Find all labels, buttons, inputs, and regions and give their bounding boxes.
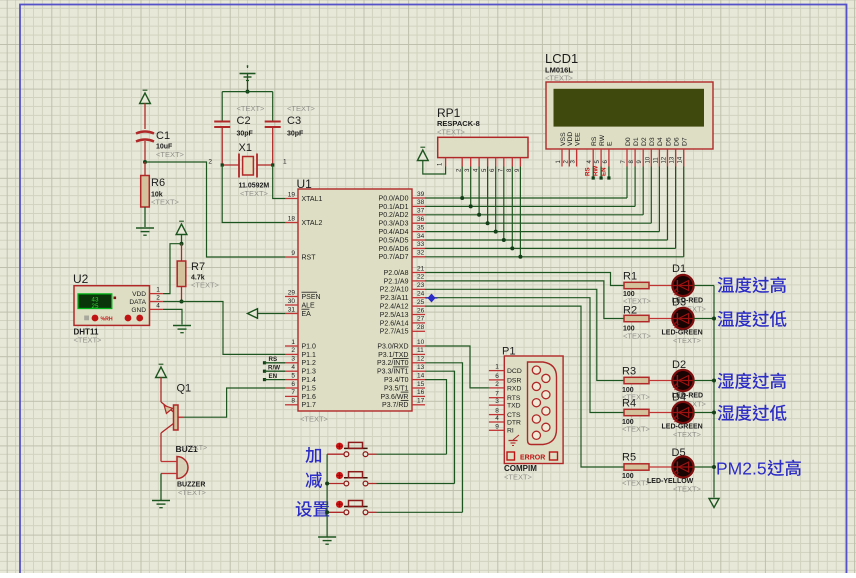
svg-text:7: 7	[291, 389, 295, 396]
U1 right pins	[377, 191, 425, 409]
svg-text:11: 11	[417, 347, 424, 354]
power VCC arrow above R7	[176, 221, 187, 244]
ground above crystal	[240, 65, 256, 92]
ground below buzzer	[152, 500, 170, 502]
svg-text:P2.1/A9: P2.1/A9	[384, 278, 409, 285]
svg-text:ALE: ALE	[302, 302, 316, 309]
svg-text:C1: C1	[156, 130, 170, 142]
svg-text:3: 3	[291, 356, 295, 363]
svg-text:25: 25	[417, 299, 425, 306]
svg-text:<TEXT>: <TEXT>	[673, 430, 702, 439]
ground below R6	[136, 227, 154, 229]
svg-text:13: 13	[670, 156, 676, 163]
svg-text:30: 30	[288, 298, 296, 305]
svg-text:P3.5/T1: P3.5/T1	[384, 385, 409, 392]
svg-text:P3.0/RXD: P3.0/RXD	[377, 343, 408, 350]
U1 left pins	[285, 191, 322, 409]
node C1-R6 junction	[143, 160, 147, 164]
svg-text:32: 32	[417, 250, 425, 257]
svg-text:EA: EA	[302, 311, 312, 318]
svg-text:U2: U2	[73, 272, 89, 286]
svg-text:36: 36	[417, 216, 425, 223]
svg-text:P1.7: P1.7	[302, 402, 317, 409]
svg-text:RW: RW	[593, 166, 600, 176]
resistor R6	[141, 162, 180, 227]
svg-text:33: 33	[417, 241, 425, 248]
svg-text:VSS: VSS	[560, 132, 567, 146]
button 设置 (set)	[327, 501, 462, 515]
svg-text:Q1: Q1	[177, 383, 192, 395]
buzzer BUZ1	[161, 444, 207, 500]
svg-text:P2.0/A8: P2.0/A8	[384, 270, 409, 277]
svg-text:RS: RS	[591, 136, 598, 146]
svg-text:PM2.5: PM2.5	[716, 459, 767, 479]
label 加	[305, 447, 321, 463]
LCD control terminals RS RW EN	[585, 166, 611, 180]
svg-text:<TEXT>: <TEXT>	[240, 189, 269, 198]
svg-text:PSEN: PSEN	[302, 294, 321, 301]
node X1 pin2	[221, 163, 224, 166]
power arrow at EA	[248, 309, 286, 319]
net label RW at P1.3	[263, 365, 285, 373]
svg-text:25: 25	[91, 303, 99, 310]
svg-text:R3: R3	[622, 366, 636, 378]
svg-text:23: 23	[417, 282, 425, 289]
svg-text:RP1: RP1	[437, 106, 461, 120]
LED row 4 resistor R4	[622, 398, 672, 434]
svg-text:EN: EN	[600, 167, 607, 176]
svg-text:<TEXT>: <TEXT>	[178, 488, 207, 497]
svg-text:P1.2: P1.2	[302, 360, 317, 367]
svg-text:CTS: CTS	[507, 412, 521, 419]
wire VDD net	[163, 244, 182, 294]
junction dots P0/RP1	[460, 196, 522, 259]
svg-text:P0.1/AD1: P0.1/AD1	[379, 204, 409, 211]
power VCC arrow above Q1	[156, 364, 167, 402]
svg-text:13: 13	[417, 364, 425, 371]
svg-text:RXD: RXD	[507, 385, 521, 392]
svg-text:<TEXT>: <TEXT>	[156, 150, 185, 159]
svg-text:P1.1: P1.1	[302, 352, 317, 359]
svg-text:<TEXT>: <TEXT>	[437, 128, 466, 137]
wire cap top rail	[222, 91, 273, 93]
svg-text:8: 8	[291, 398, 295, 405]
transistor Q1	[161, 383, 191, 462]
svg-text:<TEXT>: <TEXT>	[623, 332, 652, 341]
svg-text:7: 7	[495, 391, 499, 398]
svg-text:P3.3/INT1: P3.3/INT1	[377, 369, 409, 376]
svg-text:RS: RS	[585, 167, 592, 176]
svg-text:22: 22	[417, 274, 425, 281]
button 加 (increase)	[327, 442, 446, 456]
svg-text:D0: D0	[625, 137, 632, 146]
svg-text:D1: D1	[672, 263, 686, 275]
svg-text:8: 8	[495, 408, 499, 415]
svg-text:GND: GND	[131, 307, 146, 314]
button 减 (decrease)	[327, 472, 454, 486]
svg-text:R4: R4	[622, 398, 636, 410]
wire button3 to P3.2	[425, 363, 463, 513]
wire RST net	[145, 162, 285, 257]
svg-text:2: 2	[495, 381, 499, 388]
wire D1 to rail	[694, 285, 714, 287]
svg-text:<TEXT>: <TEXT>	[181, 445, 207, 452]
wire XTAL2 net	[222, 165, 285, 223]
LED row 1 resistor R1	[623, 271, 672, 306]
svg-text:6: 6	[291, 381, 295, 388]
svg-text:P2.3/A11: P2.3/A11	[380, 295, 408, 302]
svg-text:<TEXT>: <TEXT>	[191, 281, 220, 290]
svg-text:D4: D4	[657, 137, 664, 146]
node X1 pin1	[271, 163, 274, 166]
svg-text:RS: RS	[269, 356, 278, 363]
svg-text:P1.4: P1.4	[302, 377, 317, 384]
svg-text:<TEXT>: <TEXT>	[300, 415, 329, 424]
svg-text:9: 9	[495, 423, 499, 430]
wire button common rail	[326, 454, 328, 536]
svg-text:VDD: VDD	[567, 132, 574, 146]
svg-text:38: 38	[417, 199, 425, 206]
crystal X1	[208, 142, 287, 198]
resistor R7	[177, 244, 219, 302]
capacitor C2	[214, 104, 265, 165]
svg-text:39: 39	[417, 191, 425, 198]
svg-text:%RH: %RH	[101, 316, 113, 322]
wire button1 to P3.4	[425, 380, 447, 455]
LED row 3 resistor R3	[622, 366, 672, 402]
svg-text:<TEXT>: <TEXT>	[504, 473, 533, 482]
svg-text:C3: C3	[287, 115, 301, 127]
svg-text:D1: D1	[633, 137, 640, 146]
label 湿度过低	[718, 405, 734, 421]
svg-text:17: 17	[417, 398, 425, 405]
svg-text:P3.4/T0: P3.4/T0	[384, 377, 409, 384]
LED D4	[662, 402, 703, 439]
svg-text:P1.3: P1.3	[302, 369, 317, 376]
svg-text:P2.6/A14: P2.6/A14	[380, 320, 409, 327]
svg-text:DATA: DATA	[129, 299, 146, 306]
svg-text:1: 1	[156, 287, 160, 294]
wire GND of U2	[163, 309, 182, 324]
svg-text:TXD: TXD	[507, 403, 521, 410]
svg-text:14: 14	[678, 156, 684, 163]
svg-text:DTR: DTR	[507, 419, 521, 426]
wire P2.0-P2.4 to LED resistors	[425, 273, 624, 468]
svg-text:XTAL1: XTAL1	[302, 196, 323, 203]
svg-text:P0.7/AD7: P0.7/AD7	[379, 254, 409, 261]
svg-text:4: 4	[156, 302, 160, 309]
svg-text:RW: RW	[599, 134, 606, 146]
svg-text:11: 11	[653, 157, 659, 164]
svg-text:16: 16	[417, 389, 425, 396]
wire button2 to P3.3	[425, 371, 455, 483]
P1 pins	[489, 364, 522, 435]
svg-text:18: 18	[288, 215, 296, 222]
node cap top junction	[246, 90, 250, 94]
svg-text:P0.2/AD2: P0.2/AD2	[379, 212, 409, 219]
svg-text:3: 3	[495, 398, 499, 405]
net label EN at P1.4	[263, 373, 285, 381]
svg-text:P3.7/RD: P3.7/RD	[382, 402, 408, 409]
power VCC arrow at RP1 pin1	[417, 147, 445, 174]
svg-text:C2: C2	[237, 115, 251, 127]
svg-text:P3.6/WR: P3.6/WR	[380, 394, 408, 401]
svg-text:R5: R5	[622, 452, 636, 464]
microcontroller U1	[297, 177, 413, 424]
net label RS at P1.2	[263, 356, 285, 364]
svg-text:27: 27	[417, 316, 425, 323]
serial port P1 COMPIM	[502, 346, 563, 482]
capacitor C1	[136, 130, 185, 160]
svg-text:EN: EN	[269, 373, 278, 380]
svg-text:D3: D3	[649, 137, 656, 146]
svg-text:1: 1	[291, 339, 295, 346]
svg-text:1: 1	[495, 364, 499, 371]
label 温度过高	[718, 277, 734, 293]
resistor pack RP1	[437, 106, 528, 158]
wire P3.0 RXD to COMPIM	[425, 346, 489, 388]
wire D4 to rail	[694, 412, 714, 414]
wire P0 data bus to RP1 and LCD	[425, 167, 684, 257]
wire DATA net	[163, 302, 285, 355]
label 湿度过高	[718, 373, 734, 389]
svg-text:34: 34	[417, 233, 425, 240]
svg-text:28: 28	[417, 324, 425, 331]
svg-text:E: E	[607, 141, 614, 146]
svg-text:P0.5/AD5: P0.5/AD5	[379, 237, 409, 244]
svg-text:P3.1/TXD: P3.1/TXD	[378, 352, 408, 359]
svg-text:<TEXT>: <TEXT>	[74, 336, 103, 345]
wire LED cathode rail	[713, 286, 715, 498]
svg-text:P2.4/A12: P2.4/A12	[380, 304, 409, 311]
svg-text:35: 35	[417, 224, 425, 231]
svg-text:P1.6: P1.6	[302, 394, 317, 401]
svg-text:D5: D5	[665, 137, 672, 146]
svg-text:9: 9	[291, 250, 295, 257]
svg-text:19: 19	[288, 191, 296, 198]
svg-text:RI: RI	[507, 428, 514, 435]
svg-text:P1.5: P1.5	[302, 385, 317, 392]
junction dots LED rail	[712, 317, 716, 470]
svg-text:6: 6	[495, 373, 499, 380]
svg-text:D6: D6	[673, 137, 680, 146]
svg-text:RST: RST	[302, 254, 317, 261]
svg-text:ERROR: ERROR	[520, 455, 545, 462]
svg-text:12: 12	[417, 356, 425, 363]
svg-text:10: 10	[417, 339, 425, 346]
svg-text:P0.0/AD0: P0.0/AD0	[379, 195, 409, 202]
svg-text:P0.4/AD4: P0.4/AD4	[379, 229, 409, 236]
junction dots button rail	[325, 482, 329, 515]
LED D2	[672, 359, 707, 409]
svg-text:4: 4	[291, 364, 295, 371]
svg-text:29: 29	[288, 289, 296, 296]
node DATA junction	[180, 300, 184, 304]
svg-text:VDD: VDD	[132, 291, 146, 298]
svg-text:21: 21	[417, 265, 425, 272]
node R7 top junction	[180, 242, 184, 246]
svg-text:P3.2/INT0: P3.2/INT0	[377, 360, 409, 367]
svg-text:<TEXT>: <TEXT>	[237, 104, 266, 113]
svg-text:37: 37	[417, 208, 425, 215]
LED D5	[647, 447, 702, 494]
label 设置	[296, 501, 312, 517]
svg-text:14: 14	[417, 372, 425, 379]
ground below buttons	[318, 536, 336, 538]
LED D3	[662, 308, 703, 345]
svg-text:2: 2	[208, 159, 212, 166]
svg-text:P2.7/A15: P2.7/A15	[380, 329, 409, 336]
svg-text:31: 31	[288, 306, 296, 313]
svg-text:D7: D7	[682, 137, 689, 146]
svg-text:<TEXT>: <TEXT>	[151, 198, 180, 207]
LED D1	[672, 263, 707, 314]
sensor U2 DHT11	[73, 272, 163, 345]
power VCC arrow above C1	[140, 90, 151, 129]
LCD pin names and stubs	[556, 132, 689, 167]
svg-text:R/W: R/W	[268, 365, 280, 372]
svg-text:P2.2/A10: P2.2/A10	[380, 287, 409, 294]
svg-text:RTS: RTS	[507, 395, 521, 402]
svg-text:P1.0: P1.0	[302, 343, 317, 350]
label 减	[306, 472, 323, 488]
label 温度过低	[718, 311, 734, 327]
svg-text:10: 10	[645, 156, 651, 163]
svg-text:<TEXT>: <TEXT>	[673, 485, 702, 494]
capacitor C3	[265, 104, 316, 165]
svg-text:<TEXT>: <TEXT>	[287, 104, 316, 113]
ground below U2 GND	[173, 325, 191, 327]
svg-text:R1: R1	[623, 271, 637, 283]
svg-text:R6: R6	[151, 177, 165, 189]
svg-text:15: 15	[417, 381, 425, 388]
cursor crosshair	[426, 294, 438, 303]
svg-text:<TEXT>: <TEXT>	[673, 336, 702, 345]
svg-text:4: 4	[495, 415, 499, 422]
svg-text:XTAL2: XTAL2	[302, 220, 323, 227]
svg-text:24: 24	[417, 291, 425, 298]
svg-text:26: 26	[417, 307, 425, 314]
svg-text:12: 12	[662, 156, 668, 163]
svg-text:DSR: DSR	[507, 377, 521, 384]
LED row 5 resistor R5	[622, 452, 672, 488]
wire Q1 base to P1.5	[183, 388, 285, 417]
power down arrow LED rail	[709, 499, 719, 508]
svg-text:30pF: 30pF	[287, 131, 304, 138]
RP1 pins 2-9	[457, 158, 521, 172]
svg-text:1: 1	[283, 159, 287, 166]
LED row 2 resistor R2	[623, 305, 672, 341]
svg-text:R7: R7	[191, 261, 205, 273]
svg-text:D2: D2	[641, 137, 648, 146]
svg-text:30pF: 30pF	[237, 131, 254, 138]
svg-text:2: 2	[156, 294, 160, 301]
svg-text:2: 2	[291, 347, 295, 354]
svg-text:DCD: DCD	[507, 368, 522, 375]
svg-text:P2.5/A13: P2.5/A13	[380, 312, 409, 319]
svg-text:P0.6/AD6: P0.6/AD6	[379, 246, 409, 253]
wire D3 to rail	[694, 318, 714, 320]
svg-text:P0.3/AD3: P0.3/AD3	[379, 221, 409, 228]
wire XTAL1 net	[273, 165, 285, 199]
wire D5 to rail	[694, 466, 714, 468]
svg-text:LCD1: LCD1	[545, 51, 578, 66]
wire D2 to rail	[694, 380, 714, 382]
svg-text:<TEXT>: <TEXT>	[622, 425, 651, 434]
svg-text:X1: X1	[239, 142, 252, 154]
svg-text:<TEXT>: <TEXT>	[545, 74, 574, 83]
LCD LCD1 LM016L	[545, 51, 713, 149]
svg-text:VEE: VEE	[574, 132, 581, 146]
svg-text:5: 5	[291, 372, 295, 379]
